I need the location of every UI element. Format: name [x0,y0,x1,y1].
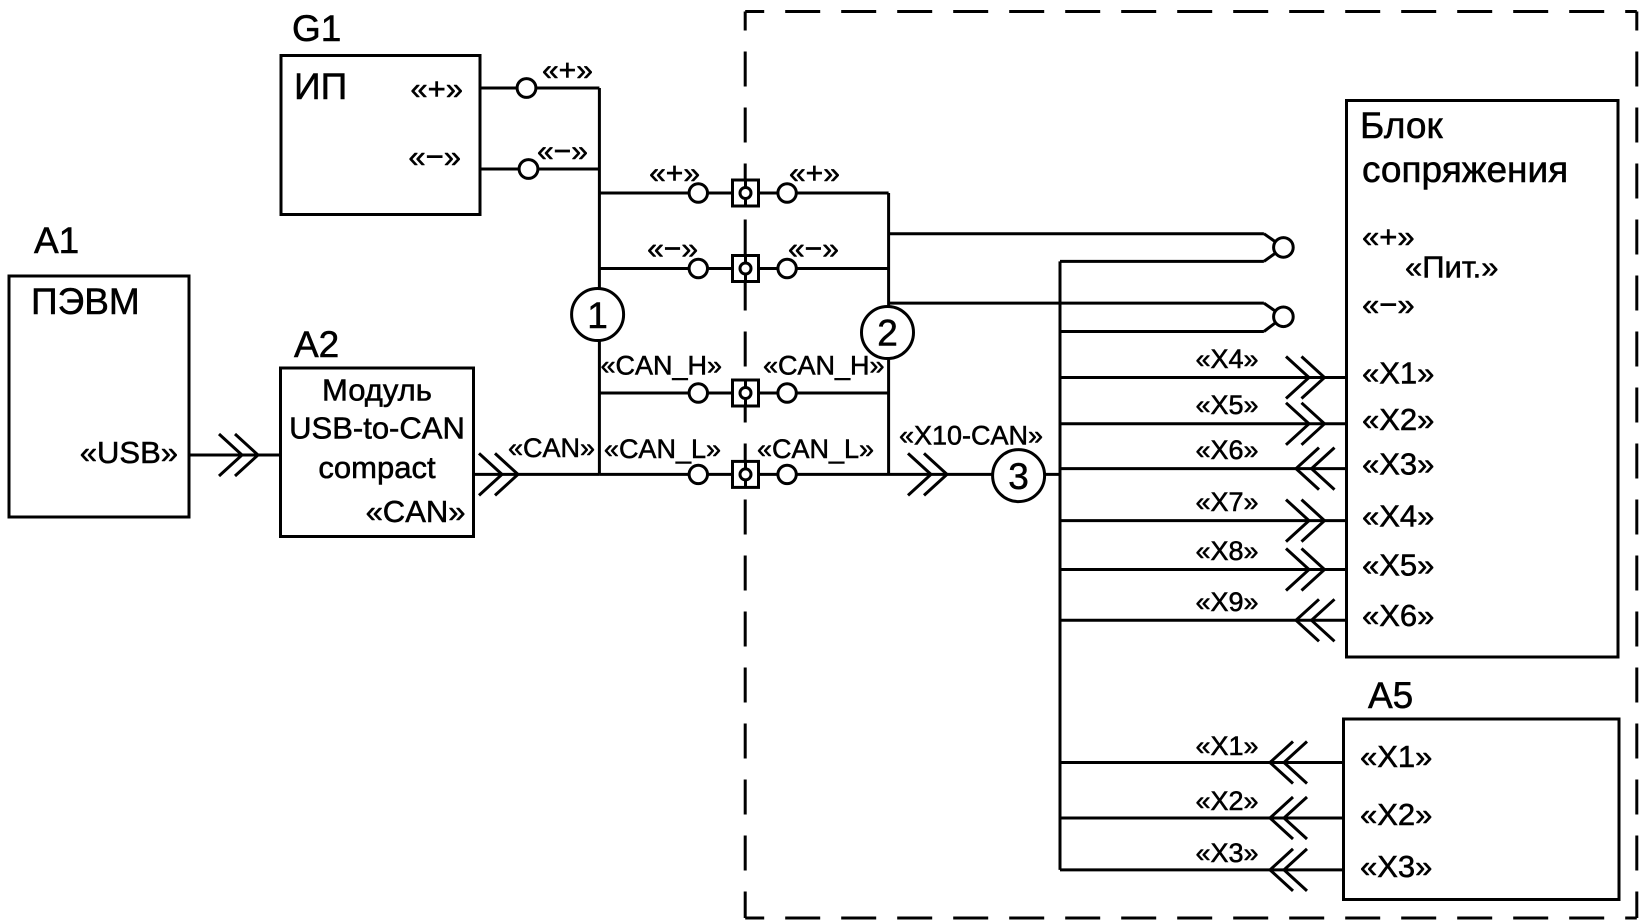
svg-text:«+»: «+» [649,157,700,190]
svg-text:Модуль: Модуль [322,373,432,408]
svg-text:«CAN»: «CAN» [508,433,595,463]
svg-text:«X4»: «X4» [1362,499,1434,534]
svg-text:Блок: Блок [1360,105,1443,146]
svg-text:«X2»: «X2» [1360,797,1432,832]
svg-text:«CAN_L»: «CAN_L» [604,434,721,464]
svg-text:«X6»: «X6» [1195,435,1258,465]
svg-text:1: 1 [587,295,608,336]
svg-text:«−»: «−» [1362,287,1415,322]
svg-text:«X1»: «X1» [1195,731,1258,761]
svg-text:compact: compact [318,450,436,485]
svg-text:«X7»: «X7» [1195,487,1258,517]
svg-text:«X3»: «X3» [1362,447,1434,482]
svg-text:«X5»: «X5» [1362,548,1434,583]
svg-text:«+»: «+» [789,157,840,190]
svg-text:«CAN_L»: «CAN_L» [757,434,874,464]
svg-text:«X9»: «X9» [1195,587,1258,617]
svg-text:«CAN_H»: «CAN_H» [600,351,722,381]
svg-text:USB-to-CAN: USB-to-CAN [289,411,465,446]
svg-text:«+»: «+» [542,54,593,87]
svg-text:«X3»: «X3» [1195,838,1258,868]
svg-text:ИП: ИП [294,66,347,107]
svg-text:«X10-CAN»: «X10-CAN» [899,421,1043,451]
svg-text:«X8»: «X8» [1195,536,1258,566]
svg-text:сопряжения: сопряжения [1362,149,1568,190]
svg-text:«−»: «−» [647,233,698,266]
svg-text:«−»: «−» [408,139,461,174]
svg-text:«X3»: «X3» [1360,849,1432,884]
svg-text:ПЭВМ: ПЭВМ [31,281,140,322]
svg-text:A1: A1 [34,220,79,261]
svg-text:2: 2 [877,313,898,354]
svg-text:A5: A5 [1368,675,1413,716]
svg-text:«CAN_H»: «CAN_H» [763,351,885,381]
svg-text:G1: G1 [292,8,341,49]
svg-text:«X6»: «X6» [1362,598,1434,633]
svg-text:«USB»: «USB» [80,435,178,470]
svg-text:«X1»: «X1» [1360,739,1432,774]
svg-text:«CAN»: «CAN» [366,494,466,529]
svg-text:«+»: «+» [410,71,463,106]
svg-text:«X2»: «X2» [1195,786,1258,816]
svg-text:3: 3 [1008,456,1029,497]
svg-text:«−»: «−» [788,233,839,266]
svg-text:«Пит.»: «Пит.» [1405,250,1498,285]
svg-text:«X1»: «X1» [1362,356,1434,391]
svg-text:A2: A2 [294,324,339,365]
svg-text:«−»: «−» [537,135,588,168]
svg-text:«X4»: «X4» [1195,344,1258,374]
svg-text:«X2»: «X2» [1362,402,1434,437]
svg-text:«X5»: «X5» [1195,390,1258,420]
